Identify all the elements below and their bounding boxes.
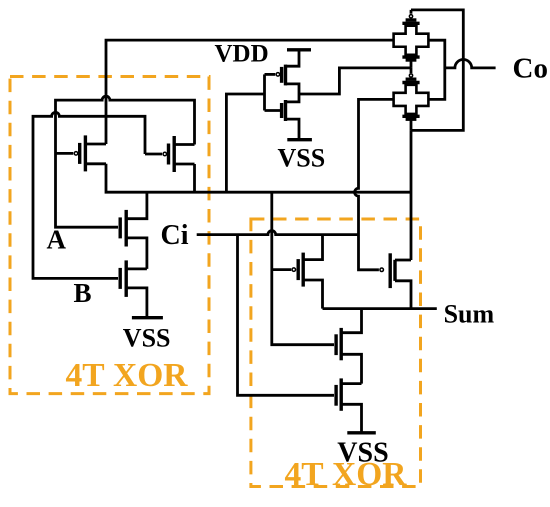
transistor N3 source lead to ground [286,119,300,140]
ground VSS of XOR2 [347,431,376,434]
transmission gate TG2 top gate lead bar [406,77,417,80]
transistor P1 source lead [85,162,106,165]
svg-text:VDD: VDD [215,40,269,67]
wire TG1 bottom gate stem [410,60,413,68]
wire inverter common gate [263,74,266,110]
transistor N3 channel bar [284,100,287,121]
transistor P1 gate lead [56,152,74,155]
transistor N1 drain lead to output rail [126,192,147,219]
wire XOR1 output rail [106,164,411,192]
transistor P3 gate bubble [276,73,280,77]
transistor P4 gate bar [297,259,300,280]
transistor P5 source lead down to Sum rail [395,281,411,309]
transistor P1 gate bar [78,143,81,164]
transistor P2 gate lead [145,153,162,156]
transmission gate TG1 body [394,26,429,55]
wire inverter input riser from XOR1 output [226,94,264,192]
transmission gate TG1 bottom gate lead bar [406,58,417,61]
dashed box 4T XOR block 2 [251,219,421,487]
ground VSS of inverter [287,138,312,141]
transistor P1 drain lead [85,143,106,146]
transistor P5 channel bar [393,260,396,281]
transistor P5 gate bar [389,253,392,288]
transistor N1 source lead to N2 drain [126,238,147,269]
ground VSS of XOR1 [132,316,163,319]
transistor N3 drain lead [286,94,300,102]
transistor N2 source lead to ground [126,288,147,318]
transistor N2 channel bar [124,260,127,297]
dashed box 4T XOR block 1 [10,77,209,394]
transistor P2 drain lead [174,143,194,146]
transistor P4 gate lead [272,268,291,271]
transistor N3 gate lead [265,109,282,112]
transmission gate TG1 bottom gate plate [402,55,419,58]
svg-text:A: A [47,224,67,254]
svg-text:B: B [74,278,92,308]
svg-text:Sum: Sum [444,299,495,328]
transmission gate TG2 body [394,85,429,114]
transistor N5 gate bar [334,385,337,406]
transmission gate TG1 top gate plate [402,22,419,25]
transmission gate TG1 top PMOS bubble [409,15,412,18]
transistor P5 drain lead [395,259,411,262]
transistor N4 drain lead up to Sum rail [341,309,361,333]
svg-text:Ci: Ci [161,220,189,251]
wire TG2 bottom gate stem [410,119,413,130]
transistor P3 drain lead to VDD [286,50,300,66]
transistor N2 drain lead [126,267,147,270]
transistor P2 gate bubble [163,152,167,156]
wire inverter output to TG gates [299,68,411,94]
power VDD bar [287,48,311,51]
transistor N1 channel bar [124,210,127,247]
wire Ci to NMOS N5 gate [238,235,335,396]
transistor P2 channel bar [172,136,175,172]
transistor P3 gate lead [265,73,276,76]
transistor P4 source lead down to Sum rail [303,280,322,309]
transistor N1 gate bar [118,217,121,238]
transistor N2 gate bar [118,268,121,289]
transmission gate TG1 top gate lead bar [406,18,417,21]
wire TG2 bottom gate node down to XOR1 output rail and P5 drain [410,130,413,260]
wire XOR1 output drop to P4 gate and N4 gate [272,192,334,345]
transmission gate TG2 bottom gate lead bar [406,117,417,120]
transistor P5 gate bubble [380,268,384,272]
transistor P3 source lead to output [286,84,300,94]
transmission gate TG2 top gate plate [402,81,419,84]
wire net B (rail to P2 gate drop, down to B input, NMOS N2 gate) [33,112,145,278]
svg-text:Co: Co [513,53,548,85]
transistor N4 gate bar [334,334,337,355]
wire feedback TG1 top gate to TG2 bottom gate [411,10,463,130]
transistor P3 channel bar [284,65,287,86]
wire TG2 top gate stem [410,68,413,73]
transistor P4 drain lead up to Ci wire [303,235,322,260]
svg-text:4T XOR: 4T XOR [66,357,189,394]
wire net A (rail to P2 drain, down to A input, NMOS N1 gate) [56,96,195,227]
transistor P2 source lead [174,163,194,166]
transistor P1 gate bubble [74,152,78,156]
transistor N5 drain lead [341,382,361,385]
transistor P3 gate bar [280,67,283,83]
wire TG right terminals to Co node [428,40,444,99]
svg-text:4T XOR: 4T XOR [285,456,408,493]
wire P2 source to output rail [193,164,196,192]
transistor P2 gate bar [167,144,170,165]
svg-text:VSS: VSS [278,144,326,173]
transistor N3 gate bar [280,103,283,118]
wire TG2 left terminal down to Ci and P5 gate (hop over output rail) [355,99,394,269]
transistor N5 source lead to ground [341,404,361,433]
svg-text:VSS: VSS [123,324,171,353]
transistor N4 source lead to N5 drain [341,354,361,383]
wire Ci input with hop [197,231,359,235]
transistor N5 channel bar [340,378,343,410]
transistor P4 gate bubble [292,268,296,272]
transmission gate TG2 bottom gate plate [402,115,419,118]
wire TG1 top gate stem [410,10,413,14]
wire Co output with hop [445,59,496,67]
transmission gate TG2 top PMOS bubble [409,74,412,77]
wire B-feed top rail [106,40,394,144]
transistor N4 channel bar [340,328,343,360]
transistor P1 channel bar [84,135,87,171]
transistor P4 channel bar [302,253,305,287]
wire Sum output rail [323,307,437,310]
